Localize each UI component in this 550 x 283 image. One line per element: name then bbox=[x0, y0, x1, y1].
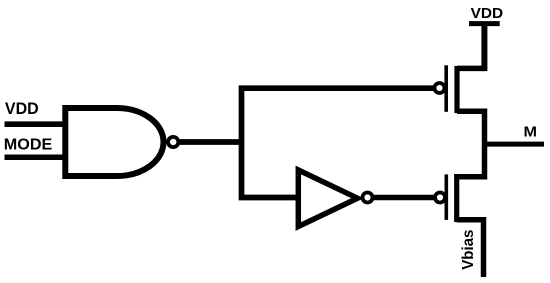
svg-text:MODE: MODE bbox=[4, 135, 53, 153]
svg-text:VDD: VDD bbox=[5, 100, 39, 118]
svg-text:Vbias: Vbias bbox=[460, 230, 477, 270]
svg-text:M: M bbox=[524, 124, 538, 141]
svg-text:VDD: VDD bbox=[471, 5, 504, 22]
